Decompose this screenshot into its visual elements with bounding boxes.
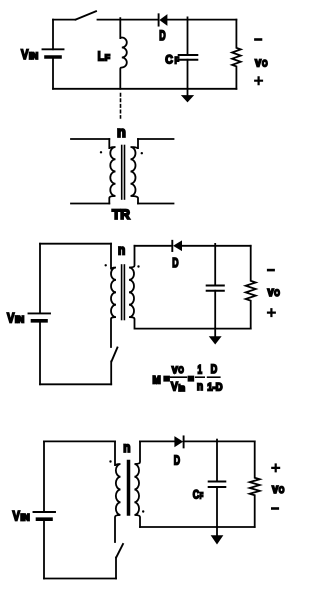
wire secondary top to diode (bottom) <box>140 440 175 442</box>
svg-text:IN: IN <box>21 513 30 523</box>
battery VIN (top circuit) <box>43 49 64 89</box>
svg-text:=: = <box>188 374 194 386</box>
wire left column top (middle) <box>39 244 41 313</box>
inductor LF <box>120 18 127 89</box>
ground (bottom) <box>212 527 223 544</box>
svg-text:V: V <box>13 509 20 524</box>
diode D (pointing left) <box>159 14 167 25</box>
TR primary winding <box>109 139 115 204</box>
TR primary top lead <box>71 138 109 140</box>
svg-text:n: n <box>197 379 203 393</box>
phase dot right (middle TR) <box>137 265 139 267</box>
svg-text:F: F <box>175 56 180 66</box>
svg-text:D: D <box>174 452 180 467</box>
svg-text:v: v <box>268 285 274 299</box>
svg-text:n: n <box>118 243 125 258</box>
wire top (middle) <box>40 243 111 245</box>
svg-text:v: v <box>272 482 278 496</box>
resistor vO (middle) <box>246 246 256 329</box>
label minus (middle) <box>268 269 273 272</box>
svg-text:V: V <box>7 310 14 325</box>
capacitor CF <box>179 17 198 88</box>
TR secondary winding <box>131 139 139 204</box>
switch S1 blade <box>76 11 97 19</box>
svg-text:IN: IN <box>15 314 24 324</box>
svg-text:v: v <box>172 362 178 376</box>
diode D (middle, pointing left) <box>172 241 181 251</box>
svg-text:v: v <box>255 55 261 69</box>
wire top segment to switch <box>53 19 76 21</box>
wire bottom (bottom circuit left) <box>44 578 116 580</box>
TR primary bottom lead <box>71 203 109 205</box>
wire diode to resistor corner <box>167 19 237 21</box>
ground (middle) <box>210 329 221 344</box>
secondary winding (middle TR) <box>129 246 135 329</box>
wire diode to resistor (bottom) <box>184 440 255 442</box>
wire diode to resistor (middle) <box>182 245 251 247</box>
svg-text:IN: IN <box>29 51 38 61</box>
phase dot left (bottom TR) <box>109 460 111 462</box>
switch (middle) blade <box>112 348 118 362</box>
core (bottom TR) <box>127 462 131 515</box>
resistor (load) vO <box>232 20 241 89</box>
wire left column top (bottom circuit) <box>43 441 45 511</box>
secondary winding (bottom TR) <box>135 441 141 527</box>
wire bottom of top circuit <box>53 88 236 90</box>
wire bottom (middle right) <box>135 328 251 330</box>
wire left column bottom (middle) <box>39 321 41 385</box>
svg-text:n: n <box>117 125 126 141</box>
svg-text:L: L <box>98 49 105 63</box>
svg-text:D: D <box>211 362 218 376</box>
svg-text:D: D <box>159 28 166 43</box>
svg-text:F: F <box>105 52 110 62</box>
svg-text:1: 1 <box>198 362 203 376</box>
svg-text:V: V <box>21 47 28 62</box>
diode D (bottom, pointing right) <box>175 436 184 447</box>
svg-text:D: D <box>172 255 178 270</box>
wire secondary top to diode (middle) <box>135 245 172 247</box>
battery VIN (middle) <box>29 313 51 320</box>
svg-text:O: O <box>274 288 280 298</box>
phase dot right (bottom TR) <box>142 510 144 512</box>
svg-text:in: in <box>178 383 185 393</box>
svg-text:C: C <box>165 52 173 66</box>
wire switch to bottom (middle) <box>110 361 112 384</box>
core (middle TR) <box>122 265 125 320</box>
label minus <box>255 38 261 41</box>
label plus (middle) <box>268 309 275 316</box>
svg-text:1-D: 1-D <box>207 381 222 393</box>
formula M = vO/Vin = (1/n)(D/(1-D)) <box>153 362 223 393</box>
svg-text:V: V <box>171 379 179 393</box>
capacitor CF (bottom) <box>209 440 226 527</box>
wire top-left vertical (battery top lead) <box>52 20 54 50</box>
wire switch to diode <box>98 19 158 21</box>
switch (bottom) blade <box>116 544 123 558</box>
svg-text:=: = <box>164 374 170 386</box>
phase dot left (middle TR) <box>105 264 107 266</box>
primary winding (bottom TR) <box>115 441 120 542</box>
wire bottom (middle left) <box>40 383 111 385</box>
resistor vO (bottom) <box>250 441 260 527</box>
TR phase dot right <box>141 152 143 154</box>
capacitor (middle) <box>207 244 224 329</box>
primary winding (middle TR) <box>111 244 116 347</box>
svg-text:n: n <box>123 440 130 455</box>
dotted link line <box>120 94 122 119</box>
svg-text:M: M <box>153 374 161 386</box>
wire switch to bottom (bottom circuit) <box>115 558 117 579</box>
svg-text:O: O <box>279 485 285 495</box>
svg-text:TR: TR <box>112 207 130 222</box>
TR secondary bottom lead <box>138 203 174 205</box>
TR phase dot left <box>100 151 102 153</box>
wire left column bottom (bottom circuit) <box>43 519 45 578</box>
TR secondary top lead <box>138 138 174 140</box>
label minus (bottom) <box>272 507 278 510</box>
battery VIN (bottom circuit) <box>34 512 56 519</box>
svg-text:F: F <box>200 491 204 501</box>
label plus (bottom) <box>272 465 279 472</box>
wire bottom (bottom circuit right) <box>140 526 255 528</box>
TR core <box>122 146 125 200</box>
svg-text:O: O <box>178 365 184 375</box>
svg-text:O: O <box>262 58 268 68</box>
ground (top circuit) <box>182 89 193 102</box>
label plus <box>255 77 262 84</box>
wire top (bottom circuit) <box>44 440 115 442</box>
svg-text:C: C <box>193 488 200 502</box>
